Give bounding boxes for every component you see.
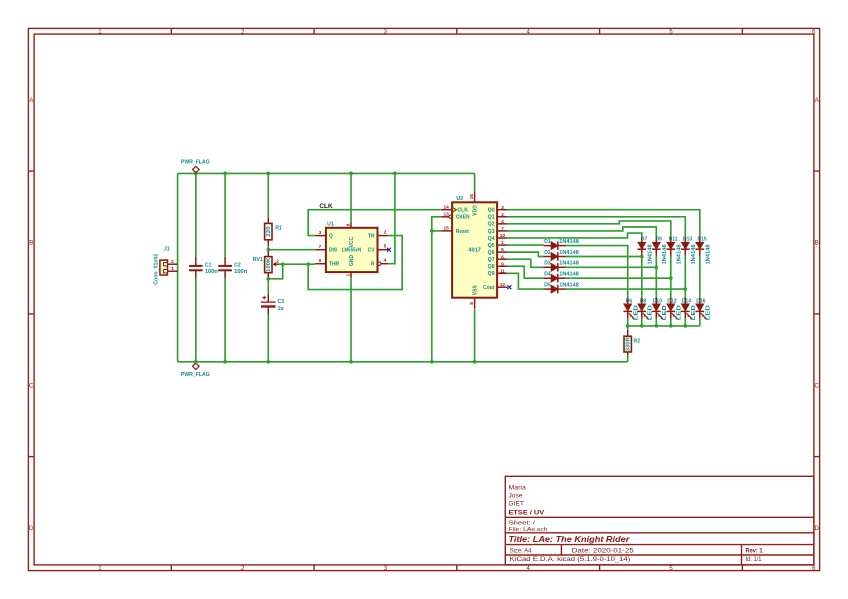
wire Q4 to D7 xyxy=(508,233,642,238)
svg-text:Q8: Q8 xyxy=(488,264,495,270)
wire Q6 to D2 xyxy=(508,252,544,256)
svg-text:D14: D14 xyxy=(682,298,691,304)
wire D9 column xyxy=(655,256,657,298)
title block xyxy=(505,476,814,565)
junction bottom rail VSS xyxy=(473,360,477,364)
junction bottom rail CKEN xyxy=(430,360,434,364)
svg-text:D16: D16 xyxy=(696,298,705,304)
svg-text:4: 4 xyxy=(501,219,504,225)
svg-text:Reset: Reset xyxy=(456,229,469,235)
svg-text:Size: A4: Size: A4 xyxy=(510,549,532,555)
wire VCC top rail xyxy=(178,172,475,174)
junction bus xyxy=(654,324,658,328)
capacitor C3 xyxy=(261,279,284,362)
wire Q5 to D1 xyxy=(508,244,544,246)
svg-text:Q: Q xyxy=(329,233,333,239)
wire U1 GND xyxy=(350,277,352,361)
LED D6 xyxy=(623,298,639,326)
svg-text:2: 2 xyxy=(276,259,279,265)
svg-text:Q5: Q5 xyxy=(488,243,495,249)
svg-text:D3: D3 xyxy=(544,261,551,267)
counter U2 4017 xyxy=(442,192,508,309)
svg-text:RV1: RV1 xyxy=(253,257,263,263)
svg-text:D13: D13 xyxy=(683,236,692,242)
LED D10 xyxy=(652,298,668,326)
power flag PWR_FLAG bottom xyxy=(181,362,210,378)
wire D2 to D7 column xyxy=(566,256,642,258)
wire U2 VSS xyxy=(474,308,476,362)
LED D8 xyxy=(638,298,654,326)
svg-text:Q0: Q0 xyxy=(488,208,495,214)
wire D7 column xyxy=(641,256,643,298)
diode D15 xyxy=(696,236,712,264)
diode D1 xyxy=(544,239,579,250)
junction THR xyxy=(306,262,310,266)
power flag PWR_FLAG top xyxy=(181,160,210,174)
svg-text:330R: 330R xyxy=(626,337,632,351)
svg-text:ETSE / UV: ETSE / UV xyxy=(509,509,546,516)
potentiometer RV1 xyxy=(253,250,279,279)
wire wiper loop xyxy=(268,264,282,279)
junction top rail pin4 xyxy=(393,172,397,176)
svg-text:11: 11 xyxy=(500,268,505,274)
wire Q0 to D15 xyxy=(508,210,700,237)
svg-text:1: 1 xyxy=(501,240,504,246)
svg-text:R2: R2 xyxy=(634,339,641,345)
LED D12 xyxy=(667,298,683,326)
junction bus xyxy=(683,324,687,328)
no-connect U1 pin5 xyxy=(387,248,391,252)
svg-text:Maria: Maria xyxy=(509,484,527,491)
junction Reset xyxy=(430,229,434,233)
svg-text:Jose: Jose xyxy=(509,492,524,499)
wire Q1 to D13 xyxy=(508,217,686,237)
svg-text:TR: TR xyxy=(368,233,375,239)
svg-text:13: 13 xyxy=(444,212,450,218)
wire D13 column xyxy=(684,256,686,298)
wire Q3 to D9 xyxy=(508,227,657,237)
svg-text:CKEN: CKEN xyxy=(456,215,470,221)
svg-text:4017: 4017 xyxy=(468,248,481,254)
diode D9 xyxy=(652,236,668,264)
svg-text:1N4148: 1N4148 xyxy=(559,239,579,245)
svg-text:100n: 100n xyxy=(205,269,218,275)
svg-text:VSS: VSS xyxy=(473,285,479,296)
label CLK xyxy=(319,204,333,210)
capacitor C1 xyxy=(189,173,218,361)
junction bus xyxy=(640,324,644,328)
svg-text:3: 3 xyxy=(501,205,504,211)
junction bottom rail U1 GND xyxy=(349,360,353,364)
svg-text:Date: 2020-01-25: Date: 2020-01-25 xyxy=(572,548,635,555)
svg-text:C3: C3 xyxy=(278,299,285,305)
svg-text:100n: 100n xyxy=(234,269,247,275)
wire Q7 to D3 xyxy=(508,259,544,267)
junction D13 D5 xyxy=(683,287,687,291)
wire Q8 to D4 xyxy=(508,266,544,278)
svg-text:A: A xyxy=(29,98,33,104)
svg-text:Q7: Q7 xyxy=(488,257,495,263)
svg-text:1N4148: 1N4148 xyxy=(559,250,579,256)
svg-text:D10: D10 xyxy=(653,298,662,304)
svg-text:D4: D4 xyxy=(544,272,551,278)
svg-text:9: 9 xyxy=(501,261,504,267)
svg-text:1N4148: 1N4148 xyxy=(662,244,668,264)
svg-text:LED: LED xyxy=(691,305,697,321)
junction RV1 bottom xyxy=(266,277,270,281)
wire Reset xyxy=(432,230,442,232)
svg-text:Title: LAe: The Knight Rider: Title: LAe: The Knight Rider xyxy=(509,534,631,544)
svg-text:CLK: CLK xyxy=(457,208,468,214)
wire CLK net xyxy=(308,210,441,236)
svg-text:Q6: Q6 xyxy=(488,250,495,256)
svg-text:D11: D11 xyxy=(669,236,678,242)
svg-text:5: 5 xyxy=(384,244,387,250)
junction top rail U1 VCC xyxy=(349,172,353,176)
svg-text:8: 8 xyxy=(469,302,475,305)
svg-text:Id: 1/1: Id: 1/1 xyxy=(746,557,763,563)
junction top rail C2 xyxy=(223,172,227,176)
wire D3 to D9 column xyxy=(566,266,657,268)
svg-text:1N4148: 1N4148 xyxy=(647,244,653,264)
svg-text:D12: D12 xyxy=(667,298,676,304)
svg-text:VDD: VDD xyxy=(473,205,479,216)
svg-text:15: 15 xyxy=(444,226,450,232)
svg-text:D6: D6 xyxy=(626,298,633,304)
svg-text:KiCad E.D.A. kicad (5.1.9-0-1: KiCad E.D.A. kicad (5.1.9-0-10_14) xyxy=(510,556,631,563)
svg-text:Q4: Q4 xyxy=(488,236,495,242)
op-amp U1 LM555xN xyxy=(315,222,388,278)
svg-text:1: 1 xyxy=(171,266,174,272)
resistor R2 xyxy=(624,326,640,362)
svg-text:C: C xyxy=(815,383,820,389)
wire DIS xyxy=(268,249,315,251)
svg-text:100K: 100K xyxy=(266,257,272,271)
svg-text:File: LAe.sch: File: LAe.sch xyxy=(509,527,548,533)
LED D14 xyxy=(681,298,697,326)
junction D9 D3 xyxy=(654,265,658,269)
wire pin4 reset xyxy=(388,173,395,263)
svg-text:CLK: CLK xyxy=(319,204,333,210)
svg-text:DIS: DIS xyxy=(329,248,338,254)
svg-text:R: R xyxy=(371,262,375,268)
svg-text:1N4148: 1N4148 xyxy=(559,261,579,267)
svg-text:1u: 1u xyxy=(278,306,284,312)
svg-text:D9: D9 xyxy=(655,236,662,242)
wire LED bus xyxy=(628,325,700,327)
svg-text:6: 6 xyxy=(319,258,322,264)
wire D15 column xyxy=(699,256,701,298)
svg-text:B: B xyxy=(815,241,819,247)
svg-text:Conn_01x02: Conn_01x02 xyxy=(153,254,159,285)
svg-text:16: 16 xyxy=(469,194,475,200)
svg-text:GIET: GIET xyxy=(509,501,525,508)
svg-text:3: 3 xyxy=(319,230,322,236)
junction bus xyxy=(626,324,630,328)
svg-text:1N4148: 1N4148 xyxy=(559,272,579,278)
wire Q9 to D5 xyxy=(508,273,544,289)
svg-text:B: B xyxy=(29,241,33,247)
svg-text:8: 8 xyxy=(346,223,352,226)
wire TR loop xyxy=(308,236,402,290)
wire GND bottom rail xyxy=(178,361,628,363)
svg-text:D8: D8 xyxy=(640,298,647,304)
svg-text:6: 6 xyxy=(501,254,504,260)
svg-text:LED: LED xyxy=(633,305,639,321)
svg-text:GND: GND xyxy=(349,254,355,266)
svg-text:LED: LED xyxy=(647,305,653,321)
svg-text:D: D xyxy=(815,526,820,532)
wire J1 vertical xyxy=(177,173,179,361)
wire THR xyxy=(279,263,315,265)
svg-text:Rev: 1: Rev: 1 xyxy=(746,549,764,555)
svg-text:U2: U2 xyxy=(456,196,463,202)
svg-text:2: 2 xyxy=(384,229,387,235)
wire D4 to D11 column xyxy=(566,277,671,279)
svg-text:Q9: Q9 xyxy=(488,271,495,277)
junction bottom rail C2 xyxy=(223,360,227,364)
svg-text:PWR_FLAG: PWR_FLAG xyxy=(181,160,210,166)
svg-text:D2: D2 xyxy=(544,250,551,256)
svg-text:U1: U1 xyxy=(327,222,334,228)
svg-text:LED: LED xyxy=(662,305,668,321)
svg-text:220: 220 xyxy=(266,226,272,237)
svg-text:10: 10 xyxy=(500,233,506,239)
diode D11 xyxy=(667,236,683,264)
svg-text:1N4148: 1N4148 xyxy=(676,244,682,264)
LED D16 xyxy=(696,298,712,326)
svg-text:4: 4 xyxy=(384,258,387,264)
svg-text:A: A xyxy=(815,98,819,104)
svg-text:LED: LED xyxy=(705,305,711,321)
wire CKEN down xyxy=(432,217,442,362)
junction bottom rail C3 xyxy=(266,360,270,364)
wire U1 VCC xyxy=(350,173,352,222)
capacitor C2 xyxy=(218,173,247,361)
svg-text:PWR_FLAG: PWR_FLAG xyxy=(181,372,210,378)
svg-text:Cout: Cout xyxy=(483,285,495,291)
svg-text:Q1: Q1 xyxy=(488,215,495,221)
no-connect U2 pin12 xyxy=(507,285,511,289)
svg-text:CV: CV xyxy=(368,248,376,254)
diode D7 xyxy=(638,236,654,264)
svg-text:VCC: VCC xyxy=(349,236,355,247)
svg-text:R1: R1 xyxy=(275,226,282,232)
svg-text:THR: THR xyxy=(329,262,340,268)
svg-text:1: 1 xyxy=(346,273,352,276)
svg-text:12: 12 xyxy=(500,282,506,288)
svg-text:Sheet: /: Sheet: / xyxy=(509,520,536,526)
junction D7 D2 xyxy=(640,255,644,259)
wire D1 to D6 column xyxy=(566,246,628,298)
svg-text:14: 14 xyxy=(444,204,450,210)
wire D5 to D13 column xyxy=(566,288,686,290)
wire D11 column xyxy=(670,256,672,298)
resistor R1 xyxy=(265,173,282,249)
svg-text:D5: D5 xyxy=(544,283,551,289)
junction RV1 wiper xyxy=(281,262,285,266)
svg-text:7: 7 xyxy=(501,226,504,232)
svg-text:LED: LED xyxy=(676,305,682,321)
junction top rail C1 xyxy=(194,172,198,176)
svg-text:D7: D7 xyxy=(641,236,648,242)
junction R1 DIS xyxy=(266,248,270,252)
svg-text:C1: C1 xyxy=(205,262,212,268)
diode D5 xyxy=(544,283,579,294)
svg-text:D15: D15 xyxy=(698,236,707,242)
wire Q2 to D11 xyxy=(508,221,671,237)
diode D2 xyxy=(544,250,579,261)
junction D11 D4 xyxy=(669,276,673,280)
wire U2 VDD xyxy=(474,173,476,191)
svg-text:5: 5 xyxy=(501,247,504,253)
svg-text:C: C xyxy=(29,383,34,389)
junction bottom rail C1 xyxy=(194,360,198,364)
svg-text:D: D xyxy=(29,526,34,532)
svg-text:2: 2 xyxy=(171,259,174,265)
svg-text:LM555xN: LM555xN xyxy=(342,248,362,254)
svg-text:1N4148: 1N4148 xyxy=(705,244,711,264)
svg-text:Q2: Q2 xyxy=(488,222,495,228)
svg-text:J1: J1 xyxy=(164,246,170,252)
junction bus xyxy=(669,324,673,328)
svg-text:1N4148: 1N4148 xyxy=(559,283,579,289)
diode D3 xyxy=(544,261,579,272)
svg-text:Q3: Q3 xyxy=(488,229,495,235)
svg-text:2: 2 xyxy=(501,212,504,218)
svg-text:1N4148: 1N4148 xyxy=(691,244,697,264)
junction top rail R1 xyxy=(266,172,270,176)
svg-text:C2: C2 xyxy=(234,262,241,268)
diode D13 xyxy=(681,236,697,264)
connector J1 xyxy=(153,246,177,284)
svg-text:D1: D1 xyxy=(544,239,551,245)
svg-text:7: 7 xyxy=(319,244,322,250)
diode D4 xyxy=(544,272,579,283)
